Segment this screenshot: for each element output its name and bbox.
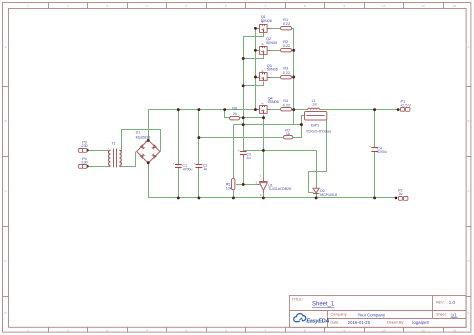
svg-text:DIP1: DIP1 — [311, 123, 319, 127]
shunt regulator U1 — [256, 174, 292, 198]
svg-text:5: 5 — [185, 329, 187, 333]
wire R6 branch from VIN — [225, 110, 230, 118]
svg-text:+2.5 V: +2.5 V — [400, 103, 411, 107]
wire Q3 drain to R3 — [267, 77, 280, 79]
junction — [262, 149, 265, 152]
svg-text:50N06: 50N06 — [267, 68, 278, 72]
wire Q4 drain to R4 — [267, 109, 280, 111]
svg-text:9: 9 — [343, 4, 345, 8]
DIP switch DIP1 — [305, 112, 332, 134]
wire R1 to bus C — [291, 28, 293, 30]
supervisor D2 — [313, 187, 337, 197]
wire R6 to gate node — [240, 117, 264, 119]
svg-text:2k: 2k — [233, 112, 237, 116]
svg-text:7: 7 — [264, 4, 266, 8]
svg-text:1/1: 1/1 — [451, 312, 458, 317]
junction — [254, 108, 257, 111]
svg-text:REV:: REV: — [436, 301, 444, 305]
svg-text:Mps5833: Mps5833 — [136, 135, 151, 139]
svg-text:Company:: Company: — [331, 313, 348, 317]
wire Q2 drain to R2 — [267, 50, 280, 52]
transformer T1 — [108, 141, 123, 167]
svg-text:B: B — [467, 119, 469, 123]
junction — [262, 196, 265, 199]
wire R4 to bus C — [291, 109, 293, 111]
wire D2 anode drop — [316, 150, 318, 187]
junction — [254, 76, 257, 79]
svg-text:10k: 10k — [226, 187, 232, 191]
svg-text:Sheet:: Sheet: — [436, 313, 447, 317]
junction — [373, 196, 376, 199]
svg-text:6: 6 — [225, 329, 227, 333]
connector P2 — [395, 188, 408, 200]
svg-text:C: C — [467, 189, 470, 193]
svg-text:9: 9 — [343, 329, 345, 333]
svg-text:50N06: 50N06 — [266, 41, 277, 45]
svg-text:Date:: Date: — [331, 321, 340, 325]
junction — [242, 57, 245, 60]
junction — [315, 196, 318, 199]
junction — [242, 183, 245, 186]
svg-text:Your Company: Your Company — [358, 312, 386, 317]
wire T1 secondary top to bridge AC1 — [122, 130, 161, 152]
wire Q3 source stub — [244, 82, 264, 86]
wire VIN to L1 — [294, 109, 308, 111]
svg-text:+: + — [173, 162, 175, 166]
svg-text:+: + — [238, 149, 240, 153]
svg-text:TITLE:: TITLE: — [292, 297, 303, 301]
wire R7 to DIP1 pin1 — [293, 116, 305, 138]
junction — [197, 196, 200, 199]
wire gate node to U1 cathode — [263, 118, 265, 178]
resistor R3 — [281, 67, 292, 79]
resistor R2 — [281, 40, 292, 52]
junction — [147, 139, 150, 142]
junction — [147, 161, 150, 164]
svg-text:1: 1 — [260, 174, 262, 178]
svg-text:-: - — [144, 162, 146, 167]
svg-text:11: 11 — [422, 4, 425, 8]
svg-text:2: 2 — [256, 180, 258, 184]
junction — [197, 136, 200, 139]
wire bridge minus down to ground rail — [148, 163, 150, 198]
svg-text:A: A — [4, 45, 7, 49]
junction — [242, 84, 245, 87]
capacitor C3 — [238, 149, 251, 160]
wire U1 anode to ground — [263, 192, 265, 198]
svg-text:0.22: 0.22 — [283, 22, 290, 26]
svg-text:4: 4 — [146, 329, 148, 333]
svg-text:0v: 0v — [399, 192, 403, 196]
junction — [292, 49, 295, 52]
junction — [254, 27, 257, 30]
svg-text:E: E — [4, 311, 6, 315]
wire D2 cathode to ground — [316, 195, 318, 198]
svg-text:8: 8 — [304, 329, 306, 333]
svg-text:E: E — [467, 311, 469, 315]
connector P4 — [79, 157, 89, 168]
svg-text:TL431ACDB2R: TL431ACDB2R — [268, 187, 292, 191]
svg-text:230: 230 — [81, 161, 87, 165]
wire L1 to P1 — [320, 109, 398, 111]
wire DIP1 pin1 drop — [301, 116, 303, 138]
svg-text:+: + — [193, 162, 195, 166]
wire R5 branch — [233, 125, 235, 179]
svg-text:0.22: 0.22 — [283, 104, 290, 108]
svg-text:2019-01-25: 2019-01-25 — [348, 320, 371, 325]
junction — [254, 49, 257, 52]
svg-text:12: 12 — [453, 329, 457, 333]
svg-text:+: + — [369, 145, 371, 149]
wire gate bus A — [243, 36, 245, 152]
svg-text:3: 3 — [106, 4, 108, 8]
junction — [292, 76, 295, 79]
junction — [177, 108, 180, 111]
svg-text:1: 1 — [27, 4, 29, 8]
junction — [223, 108, 226, 111]
wire node N1 rail to R7 — [199, 137, 283, 139]
wire ground rail — [148, 197, 396, 199]
capacitor C1 — [173, 162, 193, 172]
inductor L1 — [308, 99, 320, 110]
transistor Q2 — [254, 37, 277, 54]
wire T1 secondary bottom to bridge AC2 — [122, 152, 136, 167]
wire Q2 source stub — [244, 55, 264, 59]
svg-text:R6: R6 — [232, 106, 237, 110]
svg-text:2: 2 — [67, 329, 69, 333]
EasyEDA logo — [294, 314, 330, 325]
wire U1 ref to R5 — [236, 184, 259, 186]
svg-text:0.22: 0.22 — [283, 44, 290, 48]
svg-text:3: 3 — [260, 193, 262, 197]
junction — [177, 196, 180, 199]
svg-text:10: 10 — [382, 329, 386, 333]
transistor Q4 — [254, 96, 278, 113]
capacitor C4 — [369, 145, 387, 154]
svg-text:Sheet_1: Sheet_1 — [312, 302, 335, 308]
resistor R7 — [284, 128, 293, 139]
resistor R4 — [281, 99, 292, 111]
svg-text:logalpetr: logalpetr — [412, 320, 429, 325]
capacitor C2 — [193, 162, 207, 171]
junction — [262, 116, 265, 119]
svg-text:0.22: 0.22 — [283, 71, 290, 75]
junction — [292, 108, 295, 111]
svg-text:4700u: 4700u — [183, 167, 193, 171]
svg-text:2: 2 — [67, 4, 69, 8]
svg-text:4: 4 — [146, 4, 148, 8]
svg-text:EasyEDA: EasyEDA — [306, 318, 329, 324]
svg-text:A: A — [467, 45, 470, 49]
wire bus B — [255, 28, 257, 109]
title block — [289, 295, 466, 327]
junction — [242, 116, 245, 119]
svg-text:Drawn By:: Drawn By: — [387, 321, 404, 325]
wire P3 to T1 primary top — [88, 150, 109, 152]
svg-text:5: 5 — [185, 4, 187, 8]
svg-text:11: 11 — [422, 329, 425, 333]
wire C4 branch — [374, 110, 376, 148]
wire DIP1 pin2 to D2 gate — [309, 120, 327, 193]
transistor Q3 — [254, 64, 278, 81]
svg-text:50N06: 50N06 — [268, 100, 279, 104]
svg-text:1m: 1m — [312, 102, 317, 106]
resistor R1 — [281, 18, 292, 30]
junction — [373, 108, 376, 111]
svg-text:10: 10 — [382, 4, 386, 8]
resistor R6 — [230, 106, 240, 120]
svg-text:1.0: 1.0 — [449, 300, 456, 305]
svg-text:MCP100-8: MCP100-8 — [320, 193, 337, 197]
wire Q1 drain to R1 — [267, 28, 280, 30]
junction — [197, 108, 200, 111]
resistor R5 — [226, 179, 235, 191]
svg-text:230: 230 — [81, 144, 87, 148]
svg-text:YDG/S-6Y,blue: YDG/S-6Y,blue — [306, 129, 331, 133]
svg-text:D: D — [4, 259, 7, 263]
wire Q1 source stub — [244, 33, 264, 37]
svg-text:B: B — [4, 119, 6, 123]
wire Q4 source stub — [263, 115, 265, 118]
svg-text:T1: T1 — [111, 141, 115, 145]
svg-text:2200u: 2200u — [377, 150, 387, 154]
svg-text:1: 1 — [27, 329, 29, 333]
junction — [242, 123, 245, 126]
svg-text:C: C — [4, 189, 7, 193]
svg-text:4b: 4b — [261, 44, 264, 46]
svg-text:D1: D1 — [136, 131, 141, 135]
wire bus C — [293, 28, 295, 124]
svg-text:7: 7 — [264, 329, 266, 333]
svg-text:8: 8 — [304, 4, 306, 8]
wire C1 branch — [178, 110, 180, 165]
connector P1 — [397, 100, 412, 112]
wire bridge plus to VIN rail — [148, 110, 150, 141]
wire R3 to bus C — [291, 77, 293, 79]
transistor Q1 — [254, 15, 272, 32]
wire P4 to T1 primary bottom — [88, 166, 109, 168]
svg-text:12: 12 — [453, 4, 457, 8]
svg-text:6: 6 — [225, 4, 227, 8]
svg-text:1u: 1u — [246, 156, 250, 160]
wire C2 branch — [198, 110, 200, 165]
junction — [300, 123, 303, 126]
svg-text:3: 3 — [121, 162, 123, 166]
connector P3 — [79, 141, 89, 153]
bridge rectifier D1 — [136, 131, 160, 167]
junction — [232, 196, 235, 199]
wire return line y124 — [233, 124, 301, 126]
svg-text:4: 4 — [121, 147, 123, 151]
svg-text:D: D — [467, 259, 470, 263]
wire R2 to bus C — [291, 50, 293, 52]
svg-text:3: 3 — [106, 329, 108, 333]
wire cathode line y150 — [243, 150, 316, 152]
wire VIN rail — [148, 109, 258, 111]
svg-text:1u: 1u — [203, 167, 207, 171]
